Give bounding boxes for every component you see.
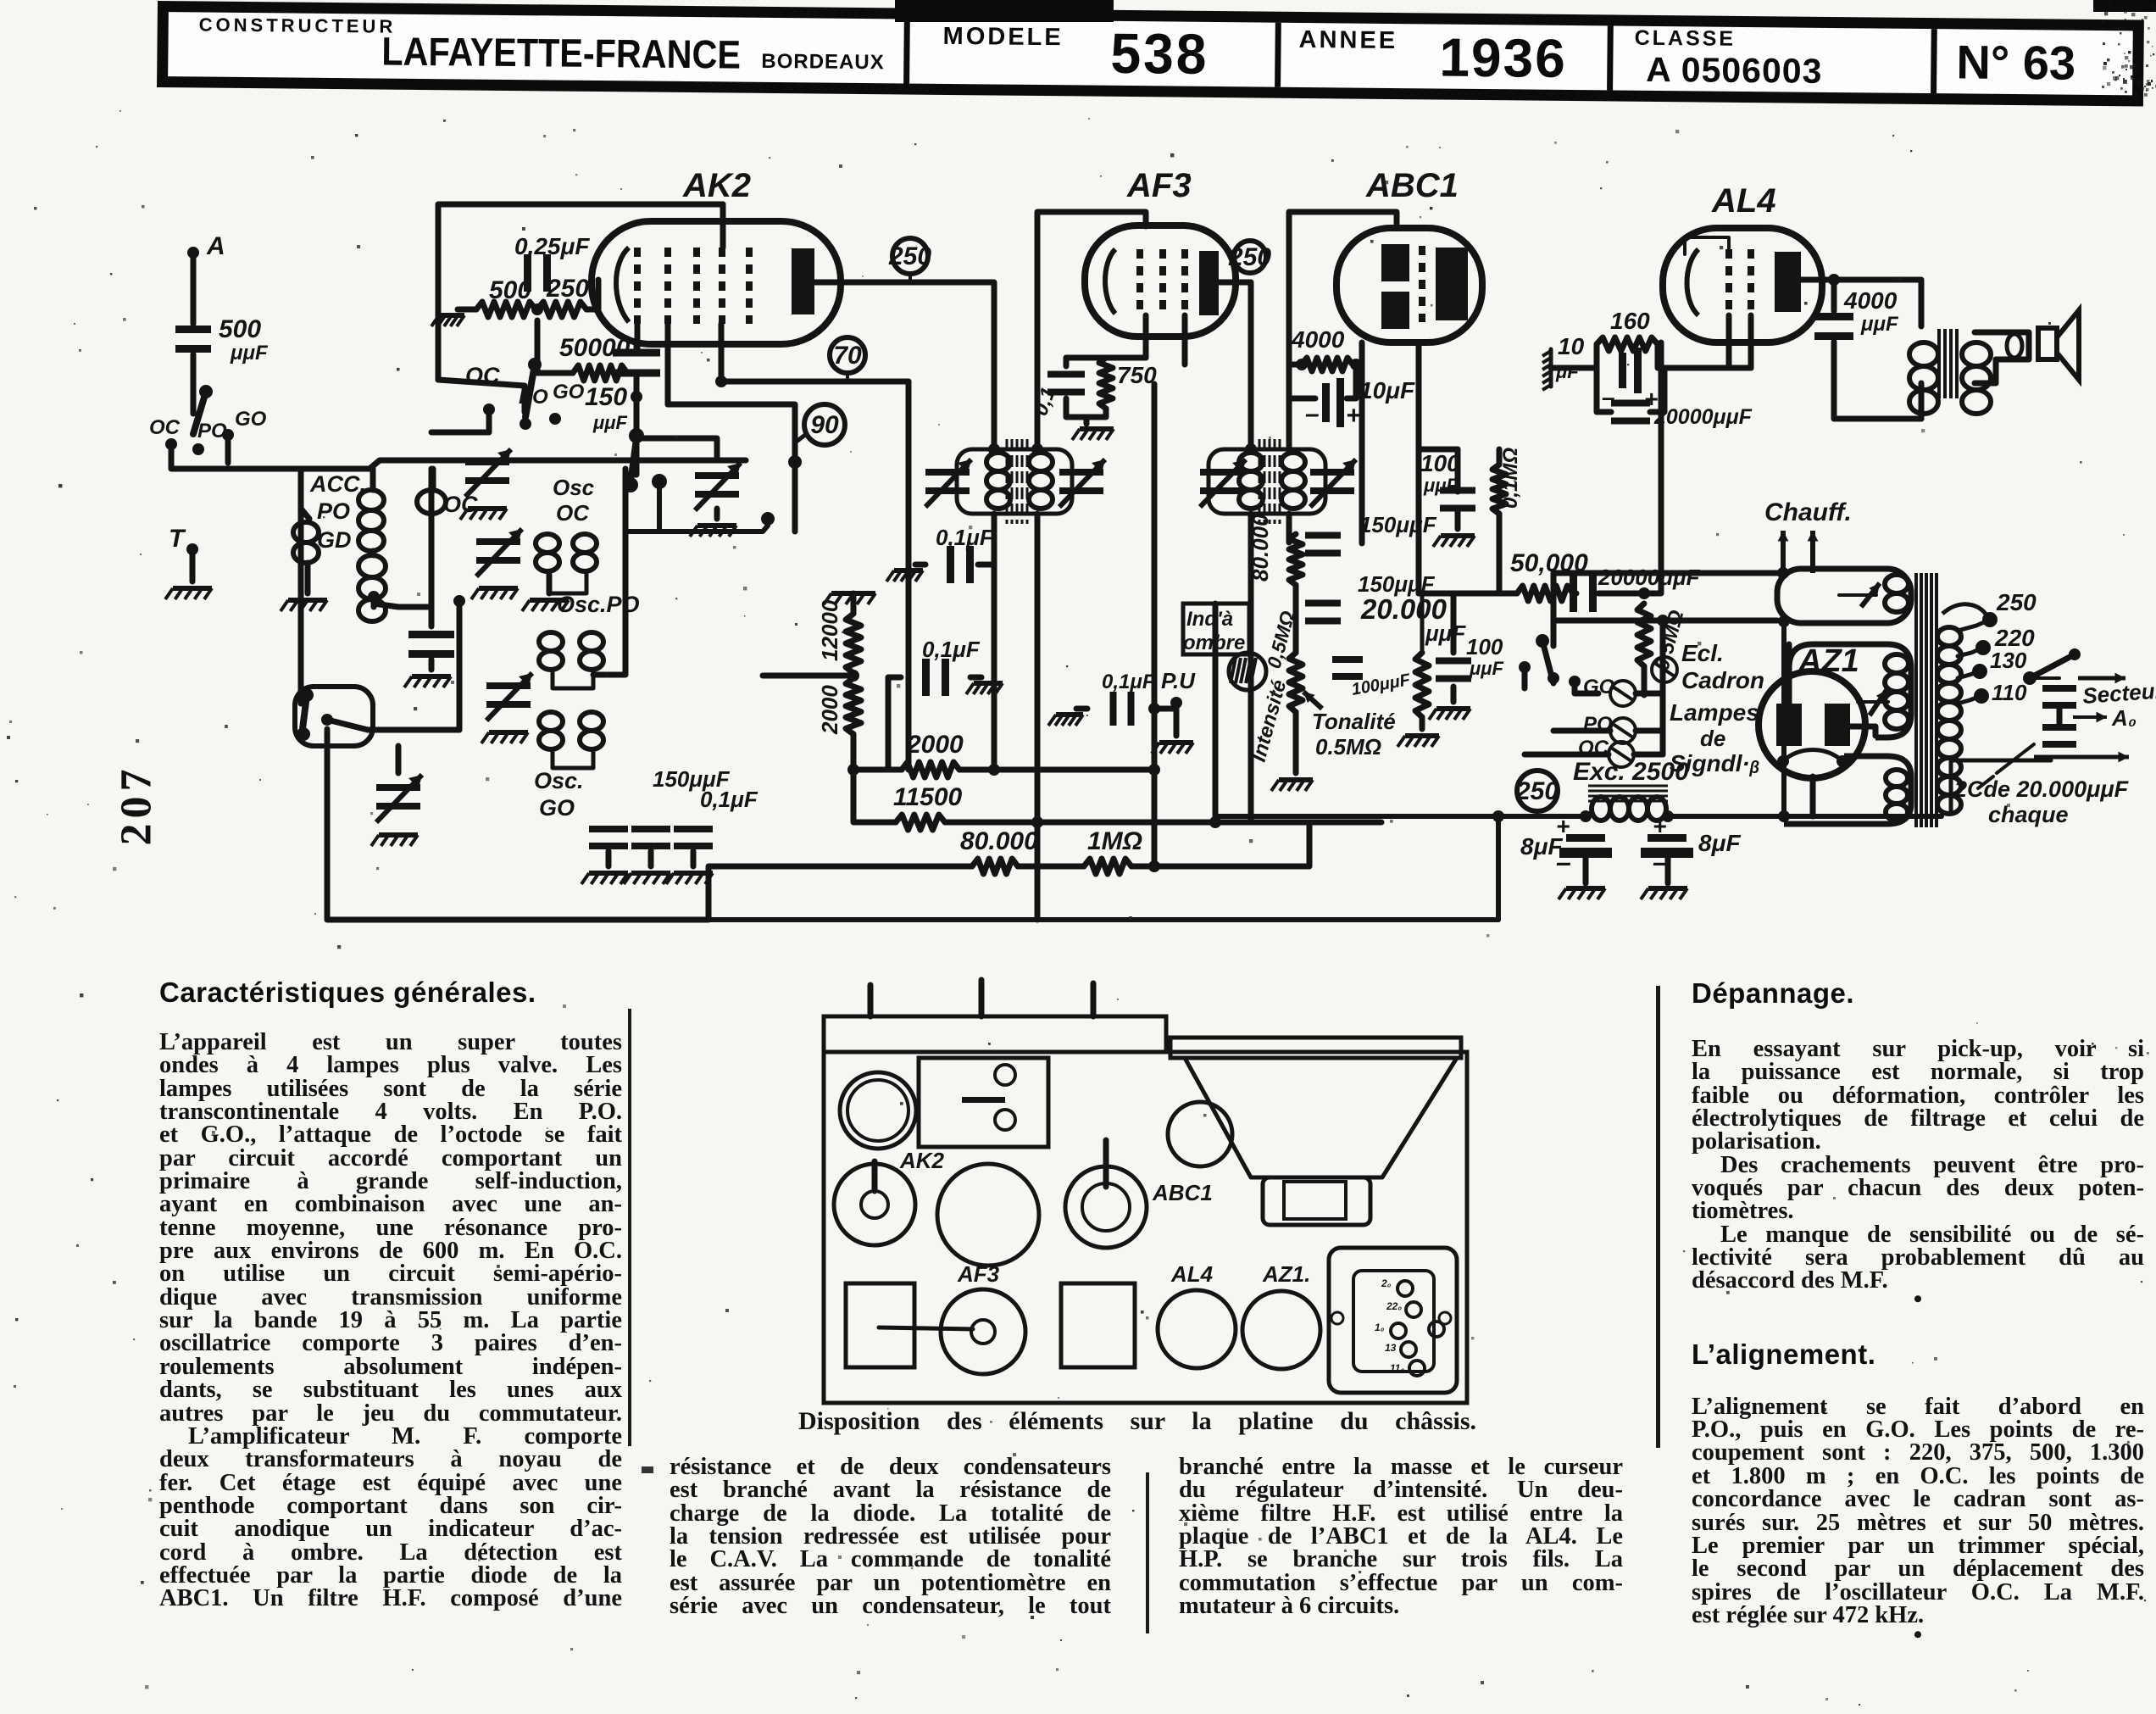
chassis tube ABC1 socket [1065, 1166, 1147, 1248]
wire ABC1 cathode drop [1359, 342, 1365, 543]
resistor 250 grid [537, 302, 586, 317]
svg-text:–: – [1305, 400, 1320, 428]
tube AL4 grid 1 [1725, 249, 1732, 315]
wire [691, 851, 697, 866]
node [788, 455, 802, 469]
wire [396, 746, 402, 773]
arrow heater 1 [1781, 531, 1786, 573]
potentiometer intensite [1289, 653, 1303, 712]
wire [2057, 707, 2063, 726]
wire [1831, 280, 1837, 311]
wire AK2 pin g4 [719, 324, 725, 381]
variable capacitor osc trimmer 1 [376, 784, 420, 791]
pilot lamp PO [1610, 718, 1636, 743]
variable capacitor osc OC [476, 538, 520, 545]
wire [1293, 731, 1299, 773]
resistor 2000 vertical [846, 678, 861, 734]
svg-text:A₀: A₀ [2111, 705, 2137, 731]
wire ABC1 plate drop [1416, 342, 1422, 593]
chassis dial strip [824, 1016, 1166, 1052]
wire [763, 673, 853, 679]
svg-text:150μμF: 150μμF [1359, 512, 1437, 537]
wire [853, 770, 896, 822]
svg-text:0,1μF: 0,1μF [922, 637, 981, 662]
svg-text:13: 13 [1385, 1342, 1397, 1354]
ground [894, 568, 923, 573]
node GO osc switch [549, 413, 561, 425]
chassis tube AZ1 [1242, 1291, 1320, 1369]
top scan streak [895, 0, 1114, 22]
power transformer primary coil [1937, 627, 1961, 646]
wire AK2 grid top lead [720, 204, 726, 248]
wire vertical x1362 [1152, 384, 1158, 866]
variable capacitor osc PO [486, 682, 531, 689]
arrow mains bottom [2034, 755, 2129, 760]
arrow heater 2 [1810, 531, 1815, 573]
chassis shaft 3 [1091, 983, 1097, 1016]
capacitor 0,1uF a [947, 546, 954, 583]
wire AK2 pin g2 [665, 324, 671, 404]
capacitor 100uuF AL4 [1436, 658, 1471, 665]
svg-text:μμF: μμF [1423, 475, 1459, 496]
resistor 500 grid [476, 302, 536, 317]
node [1296, 359, 1308, 370]
lamp Ecl Cadran [1652, 657, 1677, 682]
svg-text:160: 160 [1610, 308, 1650, 334]
node [1778, 810, 1790, 822]
wire MF1 pri bottom [992, 514, 997, 770]
node PU terminal [1170, 697, 1182, 709]
wire [1420, 593, 1425, 653]
wire [1289, 365, 1315, 398]
tube AZ1 plate 2 [1825, 704, 1850, 746]
arrow A0 [2073, 715, 2107, 719]
resistor 0,5Mohm [1637, 604, 1651, 666]
chassis MF box [919, 1058, 1048, 1147]
wire [547, 575, 553, 593]
node [1777, 567, 1789, 579]
node [1209, 816, 1221, 828]
wire vertical MF2 pri [1248, 534, 1254, 822]
wire [1497, 449, 1503, 465]
wire antenna lead [191, 253, 197, 324]
power transformer core [1914, 573, 1918, 827]
power transformer LV winding box [1784, 756, 1911, 824]
circled 90 [804, 404, 845, 445]
resistor 50.000 [1517, 586, 1573, 601]
tube AF3 grid 2 [1159, 249, 1166, 315]
svg-text:150: 150 [585, 383, 627, 411]
node [1778, 615, 1790, 627]
node [531, 303, 543, 315]
wire [1658, 344, 1751, 368]
wire [586, 280, 598, 309]
node [1638, 587, 1650, 599]
svg-text:Cadron: Cadron [1681, 667, 1764, 693]
svg-text:80.000: 80.000 [960, 827, 1038, 855]
chassis tube AF3 [941, 1289, 1025, 1374]
shadow indicator lamp [1229, 653, 1266, 690]
ground PU [1159, 740, 1193, 745]
svg-text:de: de [1700, 726, 1725, 751]
svg-text:Chauff.: Chauff. [1764, 498, 1852, 526]
svg-text:AL4: AL4 [1170, 1261, 1214, 1287]
capacitor 0,25uF [524, 254, 531, 292]
chassis speaker magnet [1263, 1177, 1370, 1225]
chassis speaker cone [1185, 1058, 1457, 1177]
capacitor mains 1 [2042, 685, 2076, 692]
node [629, 428, 644, 443]
circled 250 c [1517, 771, 1558, 811]
svg-text:11₀: 11₀ [1390, 1362, 1404, 1374]
svg-text:0,1μF: 0,1μF [1102, 671, 1156, 693]
svg-text:Osc: Osc [553, 475, 595, 500]
svg-text:2Cde 20.000μμF: 2Cde 20.000μμF [1953, 776, 2130, 802]
field coil Exc [1592, 797, 1610, 821]
middle caption [798, 1410, 1476, 1433]
tap 110 [1974, 688, 1989, 704]
svg-text:OC: OC [465, 363, 500, 388]
svg-text:μμF: μμF [1469, 658, 1504, 679]
wire [1131, 824, 1309, 866]
wire [431, 469, 436, 490]
wire lower bus [625, 526, 768, 531]
wire [1919, 383, 1925, 419]
capacitor 10uF electrolytic [1322, 383, 1330, 422]
MF2 secondary coil [1281, 453, 1305, 471]
svg-text:GO: GO [235, 408, 267, 431]
resistor 80000 vertical [1289, 534, 1303, 585]
capacitor 0,1 AF3 [1047, 371, 1085, 378]
dashed pointer [1997, 744, 2034, 773]
wire 50000 feed [1419, 591, 1517, 597]
wire rail 70 drop [906, 381, 912, 770]
coil Osc PO right [580, 632, 603, 651]
variable capacitor MF2 right [1310, 469, 1354, 476]
MF2 core hatch [1259, 439, 1261, 524]
wire branch to ACC coil [301, 469, 309, 519]
wire AZ1 plate 1 lead [1786, 644, 1792, 704]
wire [888, 677, 901, 770]
wire [1066, 355, 1146, 361]
svg-text:0,1μF: 0,1μF [700, 787, 758, 812]
speaker cone [2057, 310, 2079, 380]
svg-text:0,1MΩ: 0,1MΩ [1499, 448, 1522, 509]
wire long bottom left [327, 729, 708, 920]
tube AF3 envelope [1085, 225, 1236, 337]
chassis MF can 1 inner [847, 1080, 909, 1141]
node [847, 764, 859, 776]
node [1031, 816, 1043, 828]
node [631, 391, 642, 403]
wire [634, 376, 640, 392]
tube AK2 grid 3 [693, 248, 700, 324]
chassis square mid [1061, 1283, 1135, 1367]
page number 207 [112, 750, 162, 860]
svg-text:AK2: AK2 [682, 167, 751, 204]
mains switch [2023, 671, 2037, 685]
svg-text:0.5MΩ: 0.5MΩ [1315, 734, 1381, 760]
node OC contact [165, 438, 177, 450]
wire AF3 plate [1219, 282, 1251, 449]
node [1350, 359, 1362, 370]
chassis plate outline [824, 1052, 1467, 1403]
wire [1451, 593, 1457, 653]
ground [631, 871, 670, 876]
output transformer secondary [1962, 342, 1991, 366]
tap 220 [1975, 640, 1991, 655]
coil Osc OC left [536, 534, 559, 553]
node [847, 670, 859, 682]
ground [1566, 886, 1605, 891]
wire AL4 plate [1801, 277, 1834, 283]
wire [1634, 752, 1663, 758]
tube AK2 grid 2 [664, 248, 671, 324]
ground [1648, 886, 1687, 891]
chassis screw left [1331, 1312, 1343, 1324]
capacitor 8uF 1 [1566, 834, 1605, 842]
svg-text:μμF: μμF [1425, 620, 1466, 646]
wire [1018, 864, 1084, 870]
wire osc link 2 [553, 670, 593, 688]
wire bus down-left [298, 469, 304, 704]
wire [305, 563, 311, 593]
chassis tap hole 1 [1398, 1281, 1413, 1296]
wire AK2 pin k [635, 324, 641, 349]
wire [1356, 362, 1362, 368]
circled 250 a [892, 238, 928, 274]
wire main B- rail [708, 917, 1498, 922]
tube AK2 envelope [592, 221, 841, 344]
resistor 80.000 bottom [972, 859, 1018, 874]
svg-text:AF3: AF3 [957, 1261, 1000, 1287]
MF1 secondary coil [1029, 453, 1053, 471]
resistor 1 Mohm [1084, 859, 1131, 874]
chassis MF box hole 2 [995, 1110, 1015, 1130]
svg-text:12000: 12000 [817, 599, 842, 661]
wire AL4 cathode pin [1726, 315, 1732, 368]
ground [974, 681, 1003, 686]
wire [373, 551, 374, 555]
chassis tube AL4 [1158, 1290, 1236, 1368]
ground [530, 598, 569, 603]
wire [853, 767, 902, 773]
variable capacitor MF1 right [1059, 469, 1103, 476]
arrow hv [1870, 690, 1886, 715]
wire det bottom bus [1037, 604, 1215, 822]
node switch common [321, 714, 333, 726]
variable capacitor MF1 left [925, 469, 970, 476]
node [1492, 810, 1504, 822]
tube AK2 anode [792, 248, 814, 314]
svg-text:4000: 4000 [1843, 287, 1898, 314]
wire [1525, 752, 1609, 758]
svg-text:+: + [1653, 813, 1666, 839]
svg-text:GO: GO [539, 795, 575, 821]
wire [1497, 514, 1503, 593]
tube ABC1 anode [1436, 248, 1468, 320]
capacitor 0,1uF PU [1110, 692, 1117, 726]
node [1569, 676, 1581, 687]
ground 12000 top [831, 591, 875, 596]
tube AF3 grid 3 [1181, 249, 1188, 315]
chassis tube AK2 socket [834, 1164, 915, 1245]
wire [1573, 344, 1597, 368]
capacitor 20000uuF bias [1611, 400, 1650, 407]
wire 90 stem [797, 435, 805, 441]
right column [1692, 977, 2144, 1644]
MF transformer 2 frame [1209, 449, 1325, 514]
tap 130 [1972, 664, 1987, 679]
wire [458, 307, 476, 313]
capacitor 100uuF det [1440, 487, 1475, 494]
ground [674, 871, 713, 876]
svg-text:10: 10 [1558, 333, 1585, 359]
wire from OC contact [171, 444, 233, 469]
coil Osc OC right [573, 534, 597, 553]
wire [431, 409, 489, 432]
potentiometer tonalite [1415, 653, 1429, 717]
svg-text:Lampes: Lampes [1670, 699, 1759, 726]
svg-text:250: 250 [546, 275, 589, 303]
wire [2030, 676, 2059, 680]
resistor 4000 [1302, 358, 1353, 371]
svg-text:22₀: 22₀ [1386, 1300, 1402, 1312]
wire [1066, 398, 1106, 417]
variable capacitor OC trimmer [465, 459, 509, 465]
chassis speaker top plate [1170, 1038, 1461, 1058]
chassis tap hole 4 [1401, 1342, 1416, 1357]
tube AZ1 envelope [1759, 671, 1865, 778]
wire AL4 grid internal [1685, 237, 1729, 254]
wire osc link 3 [553, 749, 593, 768]
wire AL4 screen pin [1748, 315, 1754, 368]
wire pot wiper [1303, 692, 1322, 709]
chassis tap hole 2 [1406, 1302, 1421, 1317]
wire heater rail 2 [1553, 618, 1777, 624]
output transformer primary [1909, 342, 1938, 366]
pilot lamp OC [1609, 742, 1634, 767]
capacitor osc pad 2 [631, 826, 670, 832]
wire osc link 1 [549, 571, 586, 593]
svg-text:AZ1.: AZ1. [1262, 1261, 1310, 1287]
tube AL4 grid 2 [1748, 249, 1754, 315]
wire switch lever [525, 365, 535, 417]
wire primary bottom [1951, 760, 2051, 810]
svg-text:110: 110 [1992, 680, 2027, 705]
svg-text:500: 500 [219, 315, 261, 343]
header box [157, 1, 2144, 106]
wire [1076, 706, 1087, 712]
coil ACC antenna [293, 522, 319, 543]
wire [1455, 449, 1461, 492]
wire [1293, 585, 1299, 653]
svg-text:A: A [206, 232, 225, 260]
wire [1451, 687, 1457, 702]
svg-text:μμF: μμF [230, 342, 269, 365]
tube AL4 cathode [1687, 249, 1699, 315]
capacitor mains 2 [2042, 724, 2076, 731]
svg-text:Osc.: Osc. [534, 768, 584, 793]
wire switch col [1551, 573, 1557, 646]
svg-text:+: + [1556, 813, 1570, 839]
tube ABC1 grid [1419, 246, 1425, 322]
switch wave-change lever S1 [193, 392, 206, 434]
wire rail 90 [668, 404, 795, 531]
resistor 11500 [896, 815, 945, 830]
chassis mains inner [1353, 1271, 1434, 1372]
ground [1080, 426, 1114, 431]
wire junction [368, 591, 380, 603]
wire [1642, 666, 1648, 695]
svg-text:GO: GO [553, 381, 585, 403]
svg-text:AF3: AF3 [1126, 167, 1192, 204]
left text column [159, 977, 622, 1611]
wire [970, 675, 981, 681]
trimmer arrow hw [1861, 583, 1880, 607]
capacitor osc pad 1 [589, 826, 628, 832]
tube AL4 anode [1775, 252, 1801, 312]
ground [1441, 533, 1475, 538]
coil primary GO [358, 555, 386, 577]
svg-text:1MΩ: 1MΩ [1087, 827, 1142, 855]
wire lamp bus [1660, 620, 1666, 754]
heater winding coil [1885, 575, 1909, 593]
capacitor padder [408, 631, 454, 638]
tube AF3 cathode [1105, 249, 1115, 314]
node [1662, 810, 1674, 822]
switch lamp lever [1542, 641, 1553, 683]
wire [606, 851, 612, 866]
wire [1157, 706, 1176, 712]
svg-text:2000: 2000 [906, 731, 964, 759]
wire osc bus [593, 469, 625, 675]
wire voice coil loop [1975, 332, 2029, 383]
wire AZ1 plate 2 lead [1850, 726, 1875, 736]
switch osc section box [295, 687, 373, 746]
chassis tap hole 3 [1391, 1323, 1406, 1338]
chassis mains panel [1329, 1248, 1457, 1393]
svg-text:Exc. 2500: Exc. 2500 [1573, 758, 1689, 786]
tube ABC1 diode plate 1 [1381, 244, 1409, 281]
chassis tap hole 5 [1409, 1361, 1425, 1376]
wire [1665, 858, 1671, 883]
capacitor 0,1uF b [922, 659, 930, 696]
svg-text:chaque: chaque [1988, 802, 2069, 827]
ground [589, 871, 628, 876]
wire [915, 562, 925, 568]
svg-text:750: 750 [1117, 362, 1157, 388]
pilot lamp GO [1610, 681, 1636, 706]
output transformer core [1937, 329, 1941, 398]
wire AZ1 filament tap [1810, 776, 1816, 816]
wire AZ1 left column [1781, 621, 1786, 816]
svg-text:Secteur: Secteur [2081, 677, 2156, 709]
wire [1289, 212, 1397, 449]
ground small [439, 313, 464, 318]
wire [1455, 509, 1461, 529]
wire MF2 sec down [1286, 514, 1292, 543]
HV winding coil [1885, 654, 1909, 673]
wire [1037, 212, 1146, 449]
coil Osc GO right [580, 712, 603, 731]
svg-text:8μF: 8μF [1698, 830, 1741, 856]
wire bottom rail left [708, 864, 972, 870]
wire [945, 820, 1037, 826]
wire [1064, 358, 1070, 366]
svg-text:OC: OC [556, 500, 590, 526]
svg-text:OC: OC [149, 416, 181, 439]
